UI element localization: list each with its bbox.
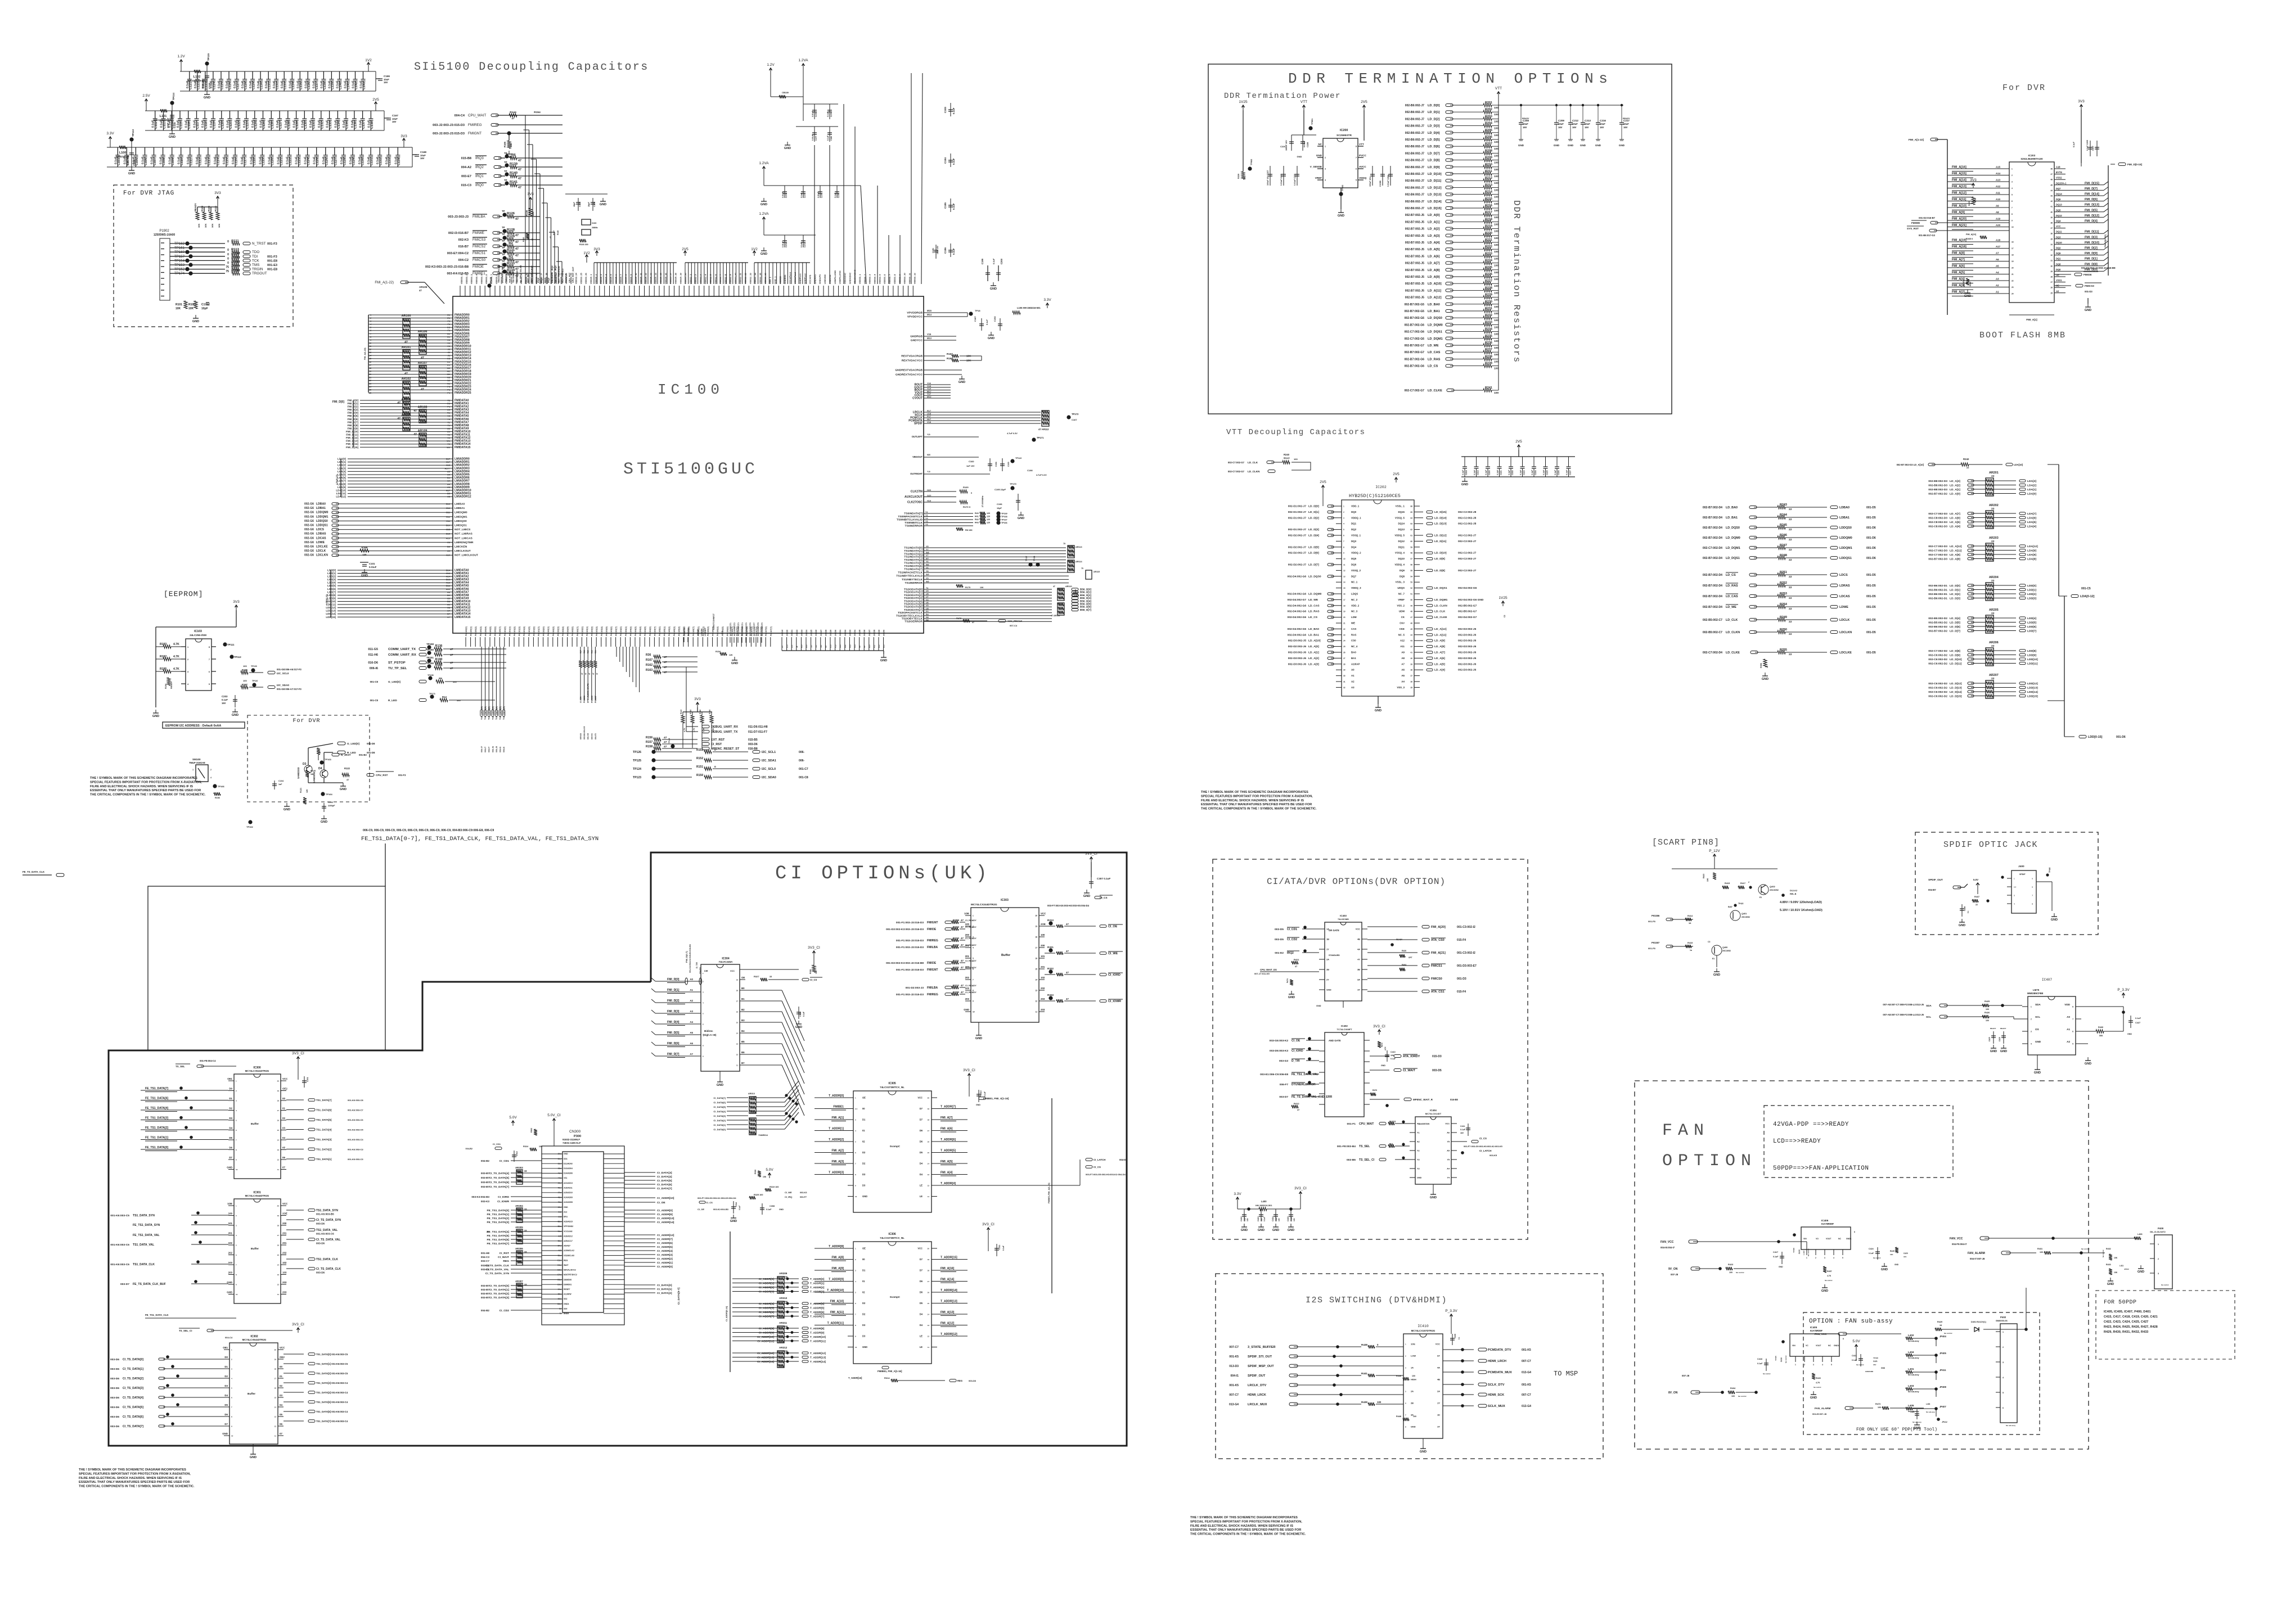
svg-text:G_LED[0]: G_LED[0] — [347, 742, 359, 746]
svg-text:003-D6: 003-D6 — [969, 1379, 976, 1382]
For DVR JTAG dashed box — [114, 185, 293, 327]
svg-text:0.1uF: 0.1uF — [952, 158, 955, 165]
svg-text:M10: M10 — [839, 644, 841, 648]
svg-text:RESET: RESET — [564, 1288, 570, 1291]
svg-text:18: 18 — [928, 1119, 930, 1121]
svg-text:GND_1: GND_1 — [774, 276, 777, 284]
IC407 grounds — [2037, 1055, 2038, 1066]
svg-text:CI_TS_DATA[2]: CI_TS_DATA[2] — [489, 1292, 510, 1296]
svg-text:OUTRIGHT: OUTRIGHT — [910, 472, 922, 475]
svg-text:LD_DQM0: LD_DQM0 — [1308, 593, 1322, 596]
svg-text:004-B2: 004-B2 — [481, 1160, 490, 1162]
svg-text:001-F3: 001-F3 — [398, 774, 406, 777]
svg-text:02: 02 — [862, 1291, 865, 1294]
svg-text:LDCS: LDCS — [316, 528, 324, 531]
svg-text:PIO101[5]: PIO101[5] — [528, 626, 530, 636]
svg-text:DQ14: DQ14 — [1398, 522, 1405, 525]
svg-text:VDD33_11: VDD33_11 — [510, 273, 513, 284]
capacitor bank C103-C165 (3V3 rail) — [107, 147, 412, 148]
svg-text:A9: A9 — [447, 603, 451, 606]
svg-text:10uF: 10uF — [1623, 123, 1629, 125]
svg-text:VDD33_15: VDD33_15 — [530, 273, 533, 284]
svg-text:C134: C134 — [292, 82, 295, 89]
svg-text:4: 4 — [1325, 179, 1326, 182]
svg-text:47: 47 — [421, 357, 424, 360]
svg-text:M2: M2 — [447, 369, 451, 372]
svg-text:V2: V2 — [447, 434, 451, 436]
svg-text:22: 22 — [2011, 280, 2014, 282]
FAN ready note dashed box — [1764, 1106, 1953, 1178]
svg-text:C128: C128 — [343, 158, 346, 165]
svg-text:A5: A5 — [690, 1031, 693, 1034]
svg-text:LDD[13]: LDD[13] — [2027, 687, 2038, 690]
svg-text:37: 37 — [1410, 675, 1412, 677]
svg-text:FE_TS1_DATA[3]: FE_TS1_DATA[3] — [487, 1221, 510, 1224]
svg-text:B5: B5 — [741, 1040, 745, 1043]
svg-text:C106: C106 — [145, 158, 148, 165]
svg-text:VDD33_1: VDD33_1 — [858, 274, 861, 284]
svg-text:002-B8:002-D3: 002-B8:002-D3 — [1928, 484, 1947, 488]
svg-text:CI_IORD: CI_IORD — [1108, 973, 1120, 977]
svg-text:DD1: DD1 — [564, 1158, 568, 1160]
svg-text:GND: GND — [731, 662, 738, 665]
svg-text:R242: R242 — [1963, 458, 1969, 461]
svg-text:GND23: GND23 — [800, 630, 803, 636]
IC304 GND — [719, 1071, 721, 1079]
svg-text:36: 36 — [1410, 681, 1412, 683]
wire bundle TS0_DATA going down — [481, 647, 482, 710]
svg-text:0.1uF: 0.1uF — [1566, 470, 1568, 475]
IC100 bottom pin stubs left groups — [465, 637, 466, 647]
svg-text:VDD25_19: VDD25_19 — [679, 273, 682, 284]
svg-text:FMIREG: FMIREG — [468, 123, 482, 127]
svg-text:DQ11: DQ11 — [1398, 545, 1405, 548]
svg-text:Y1: Y1 — [447, 443, 451, 445]
svg-text:3: 3 — [1343, 517, 1344, 519]
VTT vertical bus with arrow — [1498, 92, 1499, 97]
svg-text:R9: R9 — [439, 677, 442, 680]
svg-text:3.3V: 3.3V — [106, 132, 114, 136]
svg-text:LDD[9]: LDD[9] — [2027, 654, 2036, 657]
svg-text:12: 12 — [928, 1336, 930, 1338]
svg-text:TP166: TP166 — [218, 785, 225, 788]
svg-text:A17: A17 — [1996, 245, 2001, 248]
svg-text:C120: C120 — [271, 158, 274, 165]
svg-text:100: 100 — [1494, 367, 1498, 371]
svg-text:002-D3:002-J6: 002-D3:002-J6 — [1458, 651, 1477, 655]
svg-text:READY: READY — [170, 681, 173, 689]
svg-text:VDD25_13: VDD25_13 — [649, 273, 652, 284]
svg-text:READY: READY — [1963, 279, 1965, 286]
svg-text:C186: C186 — [944, 247, 947, 254]
svg-text:65m: 65m — [558, 1293, 562, 1296]
svg-text:58: 58 — [1410, 552, 1412, 554]
svg-text:VDD25_6: VDD25_6 — [614, 274, 617, 284]
svg-text:1.2VA: 1.2VA — [759, 161, 769, 165]
svg-text:TS2IOERROR: TS2IOERROR — [904, 620, 922, 624]
svg-text:CI_DATA[7]: CI_DATA[7] — [713, 1097, 726, 1099]
svg-text:61: 61 — [1410, 535, 1412, 537]
power net 3.3V feed with inductor L100 — [110, 137, 111, 142]
svg-text:C200: C200 — [1000, 258, 1003, 264]
svg-text:C2: C2 — [1504, 615, 1506, 617]
svg-text:R30: R30 — [591, 650, 593, 653]
svg-text:VDD25_14: VDD25_14 — [654, 273, 657, 284]
svg-text:LD_A[4]: LD_A[4] — [1428, 241, 1440, 245]
svg-text:C134: C134 — [337, 121, 341, 129]
svg-text:002-D4:002-G6: 002-D4:002-G6 — [1288, 616, 1307, 619]
svg-text:AR108: AR108 — [418, 406, 427, 409]
svg-text:LD_D[13]: LD_D[13] — [1428, 193, 1442, 197]
svg-text:FMI_D[1]: FMI_D[1] — [2085, 258, 2098, 261]
svg-text:3: 3 — [187, 671, 188, 673]
svg-text:003-F7:003-G5:003-H3:003-K2:00: 003-F7:003-G5:003-H3:003-K2:004-D4 — [1086, 1173, 1126, 1176]
svg-text:002-B6:002-J7: 002-B6:002-J7 — [1405, 145, 1424, 148]
svg-text:X160: X160 — [592, 222, 596, 224]
svg-text:H10: H10 — [800, 644, 803, 648]
svg-text:R122: R122 — [344, 767, 350, 770]
svg-text:002-C7:002-G7: 002-C7:002-G7 — [1228, 461, 1245, 464]
svg-text:LDA(0-12): LDA(0-12) — [336, 474, 338, 485]
svg-text:C212: C212 — [1572, 119, 1578, 122]
svg-text:TS2IOBYTECLK: TS2IOBYTECLK — [902, 617, 923, 621]
svg-text:2: 2 — [2011, 174, 2013, 177]
svg-text:8: 8 — [209, 646, 210, 648]
svg-text:100: 100 — [1494, 391, 1498, 395]
svg-text:DQ12: DQ12 — [1398, 540, 1405, 543]
svg-text:0.1uF: 0.1uF — [952, 248, 955, 255]
svg-text:R133: R133 — [507, 262, 515, 265]
svg-text:FMI_D[2]: FMI_D[2] — [667, 999, 679, 1003]
svg-text:016-D6: 016-D6 — [368, 661, 378, 665]
svg-text:R_LED: R_LED — [347, 751, 356, 755]
svg-text:AR205: AR205 — [1989, 608, 1999, 612]
svg-text:C311: C311 — [998, 1245, 1001, 1249]
svg-text:12K: 12K — [306, 789, 308, 793]
svg-text:12: 12 — [1343, 570, 1345, 572]
svg-text:GND32: GND32 — [844, 630, 847, 636]
svg-text:TS1INDATA[6]: TS1INDATA[6] — [904, 565, 922, 568]
svg-text:FMI_D[0-7]: FMI_D[0-7] — [685, 951, 688, 963]
svg-text:003-J2:003-J3:015-D3: 003-J2:003-J3:015-D3 — [433, 132, 465, 136]
svg-text:B3: B3 — [741, 1019, 745, 1022]
svg-text:LDD[15]: LDD[15] — [2027, 695, 2038, 698]
svg-text:C207: C207 — [2092, 146, 2094, 151]
svg-text:5: 5 — [1343, 529, 1344, 531]
svg-text:W2: W2 — [447, 446, 451, 449]
svg-text:002-B7:002-D2: 002-B7:002-D2 — [1928, 630, 1947, 633]
svg-text:1V2: 1V2 — [583, 251, 590, 255]
svg-text:0: 0 — [227, 261, 229, 265]
svg-text:0: 0 — [971, 492, 972, 494]
svg-text:B17: B17 — [446, 458, 450, 461]
svg-text:PIO104[2]: PIO104[2] — [629, 626, 632, 636]
svg-text:66m: 66m — [558, 1298, 562, 1300]
svg-text:R12: R12 — [442, 696, 447, 698]
svg-text:SIi5100 Decoupling Capacitors: SIi5100 Decoupling Capacitors — [414, 61, 649, 74]
svg-text:001-D6: 001-D6 — [1866, 536, 1876, 540]
resistor arrays AR103 AR108 AR104 AR109 on FMIDATA — [403, 402, 410, 415]
svg-text:001-D6: 001-D6 — [2116, 736, 2126, 739]
svg-text:W5: W5 — [926, 581, 929, 583]
svg-text:PIO105[3]: PIO105[3] — [673, 626, 676, 636]
svg-text:CI_TS_DATA[5]: CI_TS_DATA[5] — [489, 1176, 510, 1180]
svg-text:LD_D[9]: LD_D[9] — [1434, 557, 1445, 561]
svg-text:4.7K: 4.7K — [173, 655, 179, 658]
svg-text:LD_D[14]: LD_D[14] — [1950, 691, 1962, 694]
svg-text:GNDADAC: GNDADAC — [848, 272, 851, 284]
svg-text:C224: C224 — [1534, 470, 1537, 475]
svg-text:CI_CD1: CI_CD1 — [499, 1160, 510, 1163]
svg-text:002-B6:002-J7: 002-B6:002-J7 — [1405, 111, 1424, 114]
svg-text:C112: C112 — [199, 158, 202, 165]
svg-text:23: 23 — [1343, 634, 1345, 636]
svg-text:16V: 16V — [1623, 126, 1628, 129]
svg-text:CN300: CN300 — [569, 1130, 581, 1134]
svg-text:THE CRITICAL COMPONENTS IN THE: THE CRITICAL COMPONENTS IN THE ! SYMBOL … — [1201, 808, 1317, 811]
svg-text:IC103: IC103 — [194, 630, 202, 633]
svg-text:Buffer: Buffer — [1001, 954, 1011, 957]
svg-text:LD_DQM0: LD_DQM0 — [1428, 323, 1443, 327]
svg-text:002-B7:002-D3 LD_A[10]: 002-B7:002-D3 LD_A[10] — [1897, 463, 1924, 466]
svg-text:002-B6:002-J7: 002-B6:002-J7 — [1405, 152, 1424, 155]
svg-text:VDD25_9: VDD25_9 — [629, 274, 632, 284]
svg-text:002-B5:002-G7: 002-B5:002-G7 — [1458, 610, 1477, 613]
svg-text:VDD33_10: VDD33_10 — [505, 273, 508, 284]
svg-text:4.7uF 6.3V: 4.7uF 6.3V — [1007, 432, 1018, 435]
svg-text:0.1uF: 0.1uF — [952, 203, 955, 210]
svg-text:N11: N11 — [873, 644, 875, 648]
svg-text:DQ12: DQ12 — [2056, 214, 2062, 217]
svg-text:PIO103[4]: PIO103[4] — [601, 626, 603, 636]
svg-text:PIO101[0]: PIO101[0] — [504, 626, 506, 636]
svg-text:PIO286: PIO286 — [583, 696, 586, 703]
svg-text:C138: C138 — [323, 82, 327, 89]
caps right of IC200 100uF C1088 C204 — [1372, 166, 1373, 186]
svg-text:13: 13 — [1343, 575, 1345, 578]
svg-text:D4: D4 — [920, 1313, 923, 1316]
svg-text:45: 45 — [2050, 184, 2053, 186]
svg-text:001-H8: 001-H8 — [481, 1252, 490, 1255]
svg-text:100: 100 — [1494, 168, 1498, 172]
svg-text:D7: D7 — [920, 1107, 923, 1110]
svg-text:B56_D[7]: B56_D[7] — [1080, 608, 1091, 611]
svg-text:0: 0 — [227, 257, 229, 260]
svg-text:C123: C123 — [205, 82, 208, 89]
svg-text:C309: C309 — [799, 1012, 802, 1017]
svg-text:2: 2 — [1325, 157, 1326, 159]
svg-text:C130: C130 — [304, 121, 308, 129]
svg-text:33: 33 — [524, 1283, 527, 1286]
svg-text:R253: R253 — [1780, 592, 1787, 596]
svg-text:C121: C121 — [280, 158, 283, 165]
svg-text:A6: A6 — [1401, 669, 1405, 671]
svg-text:R129: R129 — [507, 235, 515, 238]
svg-text:GND: GND — [564, 1206, 568, 1208]
svg-text:0.1uF: 0.1uF — [1002, 1246, 1005, 1251]
svg-text:17: 17 — [736, 1000, 739, 1003]
svg-text:006-C9, 006-C9, 006-C9, 006-C9: 006-C9, 006-C9, 006-C9, 006-C9, 006-C9, … — [363, 829, 494, 832]
svg-text:002-B5:002-D2: 002-B5:002-D2 — [1928, 617, 1947, 620]
svg-text:TS2IODATA[7]: TS2IODATA[7] — [904, 608, 922, 612]
svg-text:LDDQM0: LDDQM0 — [316, 511, 328, 515]
svg-text:D3: D3 — [862, 1335, 866, 1338]
svg-text:006-J7: 006-J7 — [481, 746, 483, 752]
svg-text:R3: R3 — [508, 255, 513, 259]
svg-text:VCC3-IN2: VCC3-IN2 — [564, 1230, 573, 1233]
svg-text:DAAC1A: DAAC1A — [683, 628, 686, 636]
svg-text:002-D1:002-J7: 002-D1:002-J7 — [1288, 505, 1307, 508]
svg-text:FMI_A[13]: FMI_A[13] — [940, 1311, 955, 1314]
svg-text:FMI_D[10]: FMI_D[10] — [346, 430, 358, 433]
svg-text:18pF: 18pF — [588, 201, 590, 207]
svg-text:AR204: AR204 — [1989, 576, 1999, 579]
svg-text:G20: G20 — [927, 494, 931, 497]
svg-text:FMIREG: FMIREG — [927, 993, 938, 996]
svg-text:0.01uF: 0.01uF — [369, 566, 377, 569]
svg-text:22: 22 — [1343, 628, 1345, 630]
svg-text:FMIGNT: FMIGNT — [468, 132, 481, 136]
IC410 right rows to ovals — [1443, 1349, 1474, 1350]
svg-text:004-B2: 004-B2 — [466, 1148, 472, 1150]
svg-text:C132: C132 — [380, 158, 383, 165]
svg-text:18: 18 — [736, 990, 739, 992]
svg-text:GND38: GND38 — [873, 630, 875, 636]
svg-text:N10: N10 — [868, 644, 871, 648]
svg-text:GND: GND — [204, 96, 210, 100]
svg-text:R137: R137 — [435, 650, 443, 653]
transistor Q401 — [1730, 910, 1740, 921]
svg-text:GND: GND — [1595, 144, 1601, 147]
svg-text:002-C8:002-D3: 002-C8:002-D3 — [1928, 521, 1947, 524]
svg-text:VDD12_6: VDD12_6 — [714, 274, 717, 284]
svg-text:002-G6: 002-G6 — [304, 541, 314, 544]
svg-text:D6: D6 — [920, 1280, 923, 1283]
svg-text:LD_D[4]: LD_D[4] — [1428, 132, 1440, 135]
svg-text:A3: A3 — [1996, 278, 1999, 281]
svg-text:D8/MD00: D8/MD00 — [564, 1279, 571, 1281]
svg-text:FE_TS1_DATA[6]: FE_TS1_DATA[6] — [487, 1238, 510, 1242]
svg-text:LDDQS0: LDDQS0 — [1839, 526, 1852, 530]
svg-text:FMI_A[15]: FMI_A[15] — [1952, 172, 1966, 175]
svg-text:LD_A[1]: LD_A[1] — [1308, 651, 1319, 655]
svg-text:003-B7: 003-B7 — [481, 1181, 490, 1184]
svg-text:10uF 16V: 10uF 16V — [937, 245, 939, 254]
svg-text:LDCLKE: LDCLKE — [316, 545, 328, 549]
SCART P_12V supply — [1714, 855, 1715, 859]
svg-text:47 AR112: 47 AR112 — [1038, 428, 1049, 431]
svg-text:REXTVDACRGB: REXTVDACRGB — [901, 355, 922, 358]
svg-text:NC_2: NC_2 — [1351, 598, 1358, 601]
svg-text:USBPLLVDD: USBPLLVDD — [834, 270, 836, 284]
svg-text:DQ7: DQ7 — [1351, 575, 1357, 578]
svg-text:002-D3:002-J6: 002-D3:002-J6 — [1288, 657, 1307, 660]
svg-text:IC202: IC202 — [1375, 485, 1387, 489]
svg-text:DQ13: DQ13 — [1398, 528, 1405, 531]
svg-text:VSSQ_4: VSSQ_4 — [1395, 552, 1405, 554]
svg-text:003-K3: 003-K3 — [481, 1200, 490, 1203]
svg-text:N_TRST: N_TRST — [252, 242, 266, 246]
svg-text:LD_BA1: LD_BA1 — [1428, 310, 1440, 313]
svg-text:LD_WE: LD_WE — [1428, 344, 1439, 348]
svg-text:CI OPTIONs(UK): CI OPTIONs(UK) — [775, 863, 991, 885]
svg-text:PIO104[5]: PIO104[5] — [644, 626, 646, 636]
svg-text:D4: D4 — [920, 1173, 923, 1176]
svg-text:CI_IOWR: CI_IOWR — [497, 1200, 509, 1203]
svg-text:22: 22 — [1991, 579, 1995, 583]
svg-text:FMI_A[13]: FMI_A[13] — [1952, 185, 1966, 188]
svg-text:39: 39 — [2050, 216, 2053, 219]
svg-text:A14/AD09: A14/AD09 — [564, 1197, 573, 1199]
svg-text:22: 22 — [1991, 677, 1995, 680]
svg-text:3V3: 3V3 — [233, 600, 240, 604]
svg-text:11: 11 — [928, 1346, 930, 1348]
svg-text:FMILBA: FMILBA — [927, 946, 938, 949]
test point TP102 — [248, 820, 252, 824]
svg-text:C6: C6 — [447, 541, 451, 544]
svg-text:SAM2333: SAM2333 — [313, 772, 316, 783]
svg-text:001-D6: 001-D6 — [1866, 526, 1876, 530]
svg-text:NOCONNECT5: NOCONNECT5 — [745, 622, 748, 636]
svg-text:E9m: E9m — [557, 1283, 561, 1285]
svg-text:TP172: TP172 — [1072, 413, 1079, 416]
svg-text:C174: C174 — [804, 243, 806, 247]
svg-text:15: 15 — [736, 1022, 739, 1024]
svg-text:47: 47 — [588, 673, 591, 675]
svg-text:LDD[1]: LDD[1] — [327, 572, 336, 575]
svg-text:001-D3:003-J2:003-J3:016-B8: 001-D3:003-J2:003-J3:016-B8 — [2081, 267, 2116, 269]
svg-text:3V3: 3V3 — [1970, 178, 1977, 182]
svg-text:M14: M14 — [927, 313, 932, 316]
svg-text:R248: R248 — [1780, 554, 1787, 557]
svg-text:LD_D[8]: LD_D[8] — [1950, 649, 1960, 653]
svg-text:TP802: TP802 — [1250, 159, 1253, 165]
svg-text:LDDQM0: LDDQM0 — [1839, 536, 1852, 540]
svg-text:C128: C128 — [245, 82, 248, 89]
svg-text:66: 66 — [1410, 506, 1412, 508]
svg-text:GND: GND — [169, 136, 175, 139]
CI/ATA/DVR OPTIONs dashed box — [1213, 859, 1528, 1239]
svg-text:LDA[4]: LDA[4] — [2027, 525, 2036, 529]
svg-text:FMI_D[11]: FMI_D[11] — [346, 434, 358, 436]
svg-text:LD_A[1]: LD_A[1] — [1950, 488, 1960, 491]
svg-text:FMI_A(1-22): FMI_A(1-22) — [364, 348, 366, 360]
svg-text:10pF: 10pF — [201, 307, 208, 310]
svg-text:LDD[0]: LDD[0] — [2027, 584, 2036, 588]
svg-text:47: 47 — [961, 937, 964, 940]
svg-text:A16/AD11: A16/AD11 — [564, 1187, 573, 1189]
svg-text:002-D3:002-J6: 002-D3:002-J6 — [1458, 657, 1477, 660]
transistor Q400 — [1712, 945, 1722, 955]
svg-text:22: 22 — [1789, 528, 1792, 531]
svg-text:D11/AD03: D11/AD03 — [564, 1162, 573, 1165]
svg-text:FMI_D[15]: FMI_D[15] — [346, 446, 358, 449]
svg-text:25: 25 — [2050, 292, 2053, 294]
svg-text:006-: 006- — [799, 759, 804, 763]
svg-text:LDD[8]: LDD[8] — [327, 594, 336, 597]
svg-text:4: 4 — [973, 947, 974, 949]
IC301 right outputs TS1 CI_TS — [286, 1210, 304, 1211]
audio rows LRCLK SCLK PCMCLK PCMDATA SPDIF with AR112 — [924, 412, 1041, 413]
svg-text:G3: G3 — [447, 326, 451, 329]
svg-text:62: 62 — [1410, 529, 1412, 531]
svg-text:LD_A[5]: LD_A[5] — [1950, 521, 1960, 524]
svg-text:C104: C104 — [127, 157, 130, 165]
svg-text:16V: 16V — [1585, 126, 1589, 129]
svg-text:C177: C177 — [815, 136, 817, 141]
svg-text:C133: C133 — [329, 121, 332, 129]
svg-text:P1: P1 — [447, 405, 451, 408]
